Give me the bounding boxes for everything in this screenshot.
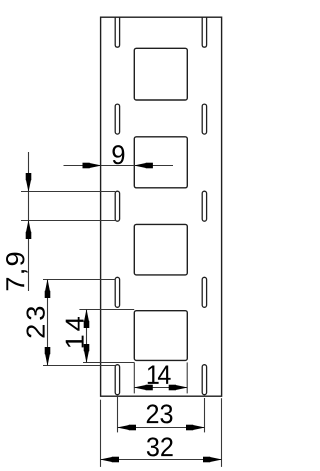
left edge slot row 4: [115, 277, 119, 307]
right edge slot row 3: [202, 191, 206, 221]
arrow 14 left top (points up): [84, 309, 89, 322]
ext line slot3 top (7,9 upper): [21, 191, 115, 193]
right edge slot row 4: [202, 277, 206, 307]
ext line 14 left bottom: [83, 362, 134, 364]
right edge slot row 5: [202, 365, 206, 395]
label 14 bottom: [148, 365, 171, 383]
arrowheads: [26, 163, 222, 463]
label 32 bottom: [147, 437, 173, 456]
left edge slot row 5: [115, 365, 119, 395]
arrow 7,9 top (points down): [26, 180, 31, 193]
dim line 14 bottom: [134, 387, 187, 389]
arrow 9 left (points right at part edge): [89, 163, 102, 168]
arrow 9 right (points left at square edge): [134, 163, 147, 168]
square hole 4: [134, 311, 187, 361]
ext line 32 bottom left: [100, 400, 102, 467]
ext line 14 left top: [79, 309, 134, 311]
dim line 23 bottom: [118, 427, 205, 429]
dim line 9 (horizontal): [64, 165, 174, 167]
left edge slot row 1 (open at top edge): [115, 17, 119, 47]
arrow 23 bottom left (points left): [117, 425, 130, 430]
square hole 1: [134, 48, 187, 100]
ext line 14 bottom right: [186, 362, 188, 393]
label 23 left rotated: [26, 307, 44, 338]
dim line 7,9 (vertical): [28, 152, 30, 291]
arrow 32 bottom left (points left): [100, 457, 113, 462]
arrow 14 bottom left (points left): [134, 385, 147, 390]
ext line 14 bottom left: [133, 362, 135, 393]
right edge slot row 2: [202, 104, 206, 134]
arrow 32 bottom right (points right): [210, 457, 223, 462]
ext line 23 bottom right: [204, 398, 206, 432]
label 7,9 rotated: [6, 253, 27, 291]
left edge slot row 3: [115, 191, 119, 221]
arrow 23 bottom right (points right): [193, 425, 206, 430]
arrow 14 bottom right (points right): [175, 385, 188, 390]
square hole 2: [134, 137, 187, 188]
ext line 32 bottom right: [221, 398, 223, 467]
dim line 32 bottom: [101, 459, 222, 461]
right edge slot row 1 (open at top edge): [202, 17, 206, 47]
dimension texts: [6, 145, 173, 456]
arrow 14 left bottom (points down): [84, 351, 89, 364]
arrow 23 left top (points up): [45, 279, 50, 292]
arrow 7,9 bottom (points up): [26, 220, 31, 233]
ext line 23 left bottom: [43, 365, 115, 367]
ext line 23 bottom left: [117, 397, 119, 432]
label 14 left rotated: [66, 317, 84, 347]
dimension and extension lines: [21, 152, 222, 467]
square hole 3: [134, 224, 187, 275]
outer strip outline: [101, 17, 222, 396]
dim line 23 left (vertical): [47, 280, 49, 366]
ext line slot3 bottom (7,9 lower): [21, 220, 115, 222]
ext line 23 left top: [43, 279, 116, 281]
left edge slot row 2: [115, 104, 119, 134]
label 9: [112, 145, 124, 164]
dim line 14 left (vertical): [86, 310, 88, 363]
label 23 bottom: [147, 404, 173, 423]
arrow 23 left bottom (points down): [45, 354, 50, 367]
